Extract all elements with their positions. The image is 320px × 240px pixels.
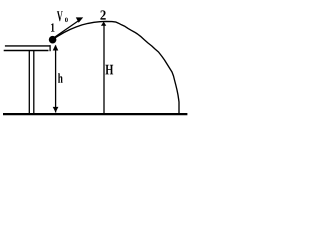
ground line [3,113,187,115]
label 1 [51,23,55,31]
velocity vector V0 line [54,21,78,38]
point 1 dot [49,36,57,44]
table leg left line [28,51,30,113]
trajectory curve [53,21,179,113]
dimension h bottom arrowhead [53,107,59,113]
label 2 [100,10,105,19]
table top upper line [5,45,51,47]
table edge tick [49,45,51,51]
table top lower line [4,50,49,52]
dimension H line [103,24,105,114]
dimension h line [55,46,57,113]
label h [58,73,63,83]
label H [105,65,113,75]
label V [57,11,63,21]
velocity vector V0 arrowhead [76,17,83,22]
label o subscript [65,18,68,23]
table leg right line [33,51,35,113]
dimension H top arrowhead [101,22,106,26]
dimension h top arrowhead [53,45,59,51]
